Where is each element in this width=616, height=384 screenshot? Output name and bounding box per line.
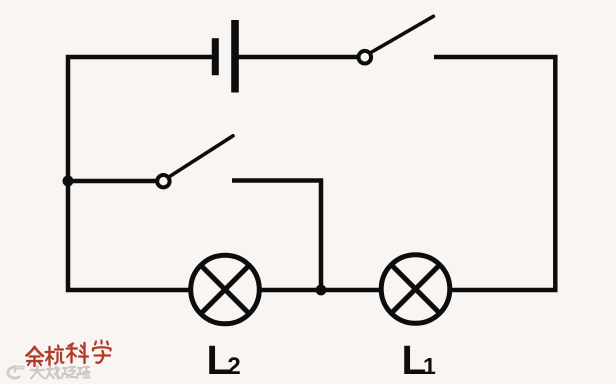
wire: top-left from battery to left corner, down left side, to lamp L2 xyxy=(68,57,212,290)
char 3 xyxy=(67,343,89,363)
switch S2 pivot circle xyxy=(157,175,169,187)
switch S2 blade (open) xyxy=(169,136,233,177)
wire: battery positive to switch S1 pivot xyxy=(239,55,358,60)
watermark: red calligraphy "Yuhang Science" xyxy=(27,341,111,367)
number xyxy=(47,367,61,379)
cross xyxy=(62,367,75,378)
svg-text:1: 1 xyxy=(423,353,436,379)
battery B1 negative plate (short bar) xyxy=(212,38,219,75)
switch S1 blade (open) xyxy=(371,16,434,52)
wire: junction to switch S2 pivot xyxy=(68,179,156,184)
switch S1 pivot circle xyxy=(359,51,372,64)
lamp L1 circle xyxy=(381,255,450,324)
lamp L2 cross xyxy=(201,265,250,314)
char 2 xyxy=(46,346,64,366)
wire: from lamp L1 right to bottom-right corner, up right side, left to switch S1 contact xyxy=(434,57,555,290)
watermark: faint gray logo and text xyxy=(8,366,90,379)
wire: bottom between lamp L2 and lamp L1 xyxy=(262,288,380,293)
lamp L1 cross xyxy=(391,265,440,314)
big xyxy=(31,367,45,379)
node: junction dot on left wire xyxy=(63,176,74,187)
battery B1 positive plate (tall bar) xyxy=(231,20,239,93)
char 1 xyxy=(27,347,44,366)
char 4 xyxy=(93,341,111,363)
wire: switch S2 fixed contact to middle branch, down to bottom junction xyxy=(232,181,321,291)
node: junction dot on bottom wire xyxy=(316,285,327,296)
lamp L2 circle xyxy=(191,255,260,324)
border xyxy=(77,367,90,378)
svg-text:2: 2 xyxy=(227,353,240,380)
